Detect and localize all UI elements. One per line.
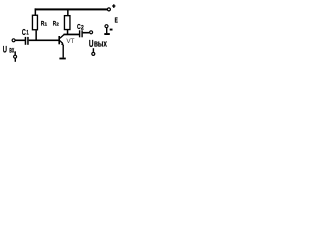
svg-text:2: 2: [56, 22, 59, 27]
svg-text:U: U: [3, 45, 7, 56]
svg-text:C: C: [22, 28, 26, 37]
svg-text:вых: вых: [94, 39, 107, 49]
svg-text:1: 1: [45, 22, 48, 27]
svg-text:1: 1: [26, 30, 29, 37]
svg-text:E: E: [115, 15, 118, 24]
svg-text:VT: VT: [66, 38, 74, 45]
svg-text:вх: вх: [9, 44, 14, 54]
svg-text:2: 2: [81, 24, 84, 31]
svg-text:U: U: [89, 39, 94, 50]
